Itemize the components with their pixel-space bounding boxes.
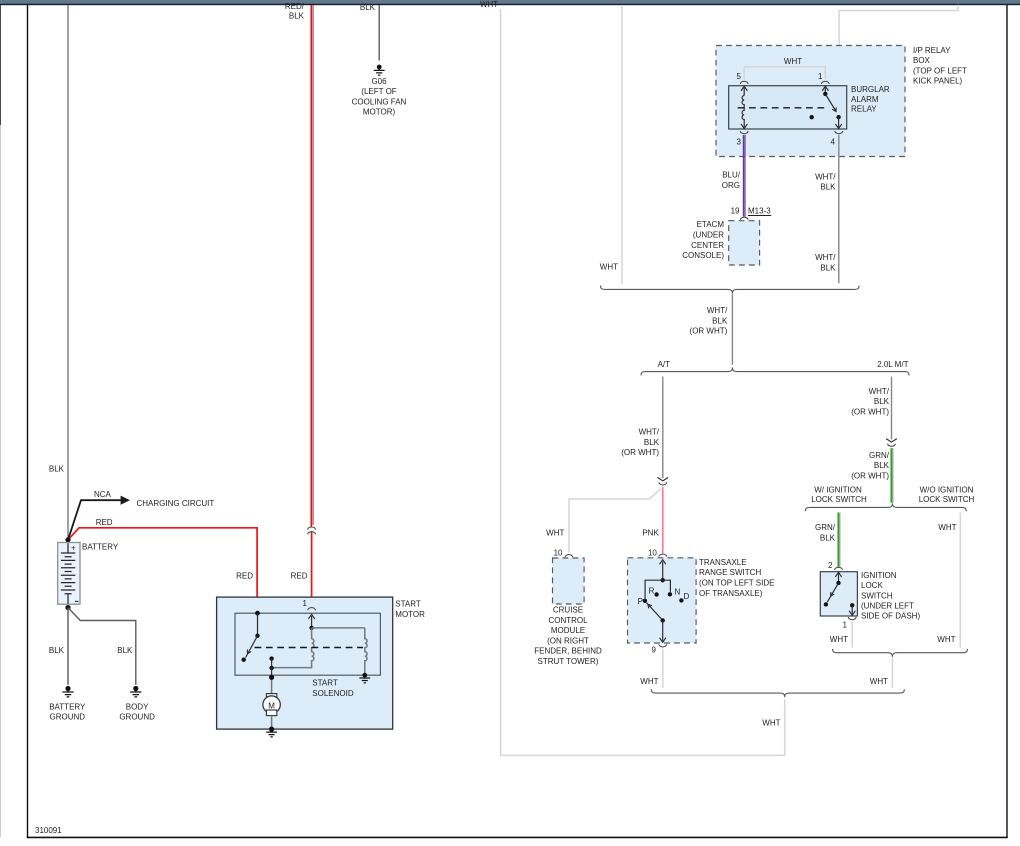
- svg-text:9: 9: [652, 645, 657, 654]
- svg-text:1: 1: [843, 621, 848, 630]
- svg-text:WHT: WHT: [830, 635, 848, 644]
- I/P relay box: [716, 46, 967, 157]
- svg-text:CONSOLE): CONSOLE): [682, 251, 724, 260]
- svg-text:WHT: WHT: [480, 0, 498, 9]
- svg-text:BLK: BLK: [874, 397, 890, 406]
- svg-text:10: 10: [648, 548, 657, 557]
- svg-text:OF TRANSAXLE): OF TRANSAXLE): [699, 589, 763, 598]
- svg-text:GRN/: GRN/: [815, 523, 836, 532]
- svg-text:A/T: A/T: [658, 360, 671, 369]
- relay dashed link: [738, 107, 828, 109]
- relay coil: [741, 86, 747, 128]
- svg-text:WHT: WHT: [762, 718, 780, 727]
- svg-text:GRN/: GRN/: [869, 451, 890, 460]
- svg-text:BLK: BLK: [874, 461, 890, 470]
- transaxle range switch box: [628, 558, 775, 643]
- svg-text:WHT/: WHT/: [815, 172, 836, 181]
- inline connector on RED/BLK wire: [308, 527, 316, 534]
- svg-text:LOCK: LOCK: [861, 581, 883, 590]
- svg-text:MODULE: MODULE: [551, 626, 585, 635]
- merge brace (WHT + WHT/BLK): [601, 286, 860, 294]
- ignition switch internals: [824, 572, 855, 615]
- inline connector A/T: [659, 482, 667, 485]
- svg-text:BATTERY: BATTERY: [82, 543, 119, 552]
- svg-text:W/ IGNITION: W/ IGNITION: [814, 486, 862, 495]
- wire BLK battery feed from top: [49, 5, 68, 540]
- svg-text:10: 10: [554, 548, 563, 557]
- svg-text:LOCK SWITCH: LOCK SWITCH: [919, 495, 975, 504]
- ignition lock switch box: [820, 571, 920, 621]
- svg-text:BURGLAR: BURGLAR: [851, 85, 890, 94]
- svg-text:WHT: WHT: [938, 523, 956, 532]
- pin 1: [818, 72, 829, 84]
- wire WHT branch to cruise module: [546, 489, 661, 558]
- solenoid dashed link: [255, 647, 364, 649]
- wire WHT transaxle pin 9 to merge brace: [640, 649, 663, 688]
- svg-text:W/O IGNITION: W/O IGNITION: [920, 486, 974, 495]
- diagram frame left border: [27, 5, 29, 838]
- battery ground symbol: [49, 686, 86, 722]
- svg-text:RED: RED: [291, 572, 308, 581]
- wire WHT ignition pin 1: [830, 622, 852, 648]
- cruise pin arc: [565, 555, 573, 558]
- svg-text:2.0L M/T: 2.0L M/T: [877, 360, 908, 369]
- wire BLK to body ground: [68, 608, 136, 685]
- svg-text:RED: RED: [236, 572, 253, 581]
- svg-text:CRUISE: CRUISE: [553, 606, 583, 615]
- svg-text:BLK: BLK: [49, 646, 65, 655]
- ignition pin 2: [828, 561, 842, 570]
- svg-text:START: START: [312, 679, 338, 688]
- wire BLK to battery ground: [49, 608, 68, 685]
- svg-text:BLK: BLK: [644, 438, 660, 447]
- svg-text:M: M: [268, 702, 275, 711]
- svg-text:START: START: [395, 600, 421, 609]
- pin 3: [737, 131, 749, 147]
- merge brace final: [651, 689, 904, 697]
- svg-text:WHT/: WHT/: [815, 253, 836, 262]
- svg-text:(OR WHT): (OR WHT): [851, 408, 889, 417]
- svg-text:1: 1: [303, 599, 308, 608]
- svg-text:R: R: [649, 586, 655, 595]
- merge brace ignition outputs: [833, 649, 968, 657]
- svg-text:GROUND: GROUND: [50, 713, 86, 722]
- svg-text:WHT: WHT: [784, 57, 802, 66]
- wire GRN/BLK to ignition split brace: [851, 448, 893, 503]
- svg-text:5: 5: [737, 72, 742, 81]
- svg-text:WHT/: WHT/: [707, 306, 728, 315]
- svg-text:GROUND: GROUND: [119, 713, 155, 722]
- split brace w/ vs w/o ignition lock switch: [805, 486, 974, 512]
- svg-text:WHT: WHT: [546, 529, 564, 538]
- svg-text:RED: RED: [96, 518, 113, 527]
- battery: [58, 543, 119, 605]
- pin 5: [737, 72, 749, 84]
- svg-text:3: 3: [737, 138, 742, 147]
- charging circuit arrow: [68, 490, 214, 540]
- ETACM box: [682, 220, 759, 265]
- svg-text:(OR WHT): (OR WHT): [690, 327, 728, 336]
- svg-text:TRANSAXLE: TRANSAXLE: [699, 558, 747, 567]
- svg-text:BLK: BLK: [820, 534, 836, 543]
- svg-text:M13-3: M13-3: [748, 207, 771, 216]
- svg-text:CHARGING CIRCUIT: CHARGING CIRCUIT: [137, 499, 215, 508]
- svg-text:ALARM: ALARM: [851, 95, 879, 104]
- svg-text:BLK: BLK: [49, 464, 65, 473]
- svg-text:1: 1: [818, 72, 823, 81]
- solenoid switch (left): [242, 611, 260, 662]
- wire WHT/BLK relay pin 4 down to merge brace: [815, 135, 839, 283]
- svg-text:RED/: RED/: [285, 2, 305, 11]
- wire GRN/BLK to ignition pin 2: [815, 513, 840, 567]
- svg-text:BOX: BOX: [913, 56, 931, 65]
- svg-text:(UNDER LEFT: (UNDER LEFT: [861, 602, 914, 611]
- wire BLK to G06 ground: [360, 3, 379, 60]
- svg-text:CONTROL: CONTROL: [548, 616, 588, 625]
- svg-text:2: 2: [828, 561, 833, 570]
- svg-text:NCA: NCA: [94, 490, 112, 499]
- wire WHT trunk (top to bottom loop): [480, 0, 785, 755]
- wire BLU/ORG relay pin 3 to ETACM: [722, 135, 745, 217]
- wire WHT brace output: [870, 658, 893, 688]
- svg-text:SOLENOID: SOLENOID: [312, 689, 354, 698]
- ETACM pin arc: [740, 217, 748, 220]
- solenoid output contact: [269, 656, 274, 693]
- svg-text:PNK: PNK: [642, 529, 659, 538]
- diagram frame right border: [1006, 5, 1008, 838]
- svg-text:BLK: BLK: [117, 646, 133, 655]
- svg-text:WHT/: WHT/: [869, 387, 890, 396]
- svg-text:FENDER, BEHIND: FENDER, BEHIND: [534, 647, 602, 656]
- svg-text:WHT: WHT: [600, 263, 618, 272]
- inline connector M/T: [888, 444, 896, 447]
- relay switch: [810, 86, 842, 128]
- svg-text:(ON TOP LEFT SIDE: (ON TOP LEFT SIDE: [699, 579, 774, 588]
- svg-text:G06: G06: [371, 77, 387, 86]
- svg-text:(TOP OF LEFT: (TOP OF LEFT: [913, 66, 967, 75]
- battery junction dot: [65, 537, 70, 542]
- battery negative junction: [65, 605, 70, 610]
- start solenoid inner box: [235, 613, 380, 675]
- svg-text:COOLING FAN: COOLING FAN: [352, 97, 407, 106]
- start motor pin 1: [303, 599, 316, 610]
- wire WHT from relay pin 1 to top right off-page: [827, 5, 959, 79]
- svg-text:RELAY: RELAY: [851, 105, 877, 114]
- diagram frame bottom border: [27, 836, 1008, 838]
- svg-text:I/P RELAY: I/P RELAY: [913, 46, 951, 55]
- wire WHT/BLK 2.0L M/T branch: [851, 377, 896, 443]
- svg-text:BLK: BLK: [360, 3, 376, 12]
- pin 4: [831, 131, 843, 147]
- svg-text:19: 19: [731, 207, 740, 216]
- svg-text:WHT: WHT: [870, 677, 888, 686]
- svg-text:(ON RIGHT: (ON RIGHT: [547, 636, 589, 645]
- cruise control module box: [534, 558, 602, 666]
- solenoid pull-in circuit: [272, 614, 370, 683]
- transaxle pin 9: [652, 644, 667, 654]
- svg-text:+: +: [71, 543, 76, 552]
- svg-text:RANGE SWITCH: RANGE SWITCH: [699, 568, 761, 577]
- svg-text:310091: 310091: [35, 826, 62, 835]
- svg-text:MOTOR: MOTOR: [395, 610, 425, 619]
- svg-text:BATTERY: BATTERY: [49, 702, 86, 711]
- top header bar: [0, 0, 1020, 4]
- burglar alarm relay inner box: [729, 85, 890, 129]
- svg-text:WHT: WHT: [937, 635, 955, 644]
- svg-text:BLK: BLK: [712, 316, 728, 325]
- svg-text:KICK PANEL): KICK PANEL): [913, 77, 963, 86]
- svg-text:D: D: [684, 592, 690, 601]
- start solenoid label: [312, 679, 354, 698]
- transaxle switch internals: [638, 560, 690, 643]
- svg-text:(OR WHT): (OR WHT): [621, 448, 659, 457]
- svg-text:LOCK SWITCH: LOCK SWITCH: [811, 495, 867, 504]
- svg-text:BLK: BLK: [289, 11, 305, 20]
- svg-text:WHT/: WHT/: [639, 428, 660, 437]
- split brace A/T vs 2.0L M/T: [641, 360, 909, 376]
- motor M: [263, 694, 280, 737]
- svg-text:BODY: BODY: [126, 702, 149, 711]
- body ground symbol: [119, 686, 155, 722]
- window left edge: [0, 5, 2, 125]
- wire RED/BLK from top to start motor pin 1: [285, 2, 313, 606]
- wire WHT/BLK brace to split brace: [690, 294, 733, 365]
- svg-text:SIDE OF DASH): SIDE OF DASH): [861, 612, 920, 621]
- wire PNK to transaxle pin 10: [642, 487, 662, 553]
- svg-text:(LEFT OF: (LEFT OF: [361, 87, 397, 96]
- svg-text:(UNDER: (UNDER: [693, 231, 724, 240]
- svg-text:MOTOR): MOTOR): [363, 108, 396, 117]
- start motor outer box: [217, 597, 426, 729]
- wire WHT/BLK A/T branch: [621, 377, 668, 481]
- svg-text:ETACM: ETACM: [697, 220, 725, 229]
- svg-text:CENTER: CENTER: [691, 241, 724, 250]
- svg-text:STRUT TOWER): STRUT TOWER): [538, 657, 599, 666]
- wire WHT w/o ignition branch: [937, 513, 960, 648]
- svg-text:4: 4: [831, 138, 836, 147]
- ground G06: [352, 65, 407, 117]
- svg-text:ORG: ORG: [722, 181, 740, 190]
- svg-text:P: P: [638, 597, 643, 606]
- svg-text:BLU/: BLU/: [722, 171, 741, 180]
- svg-text:SWITCH: SWITCH: [861, 591, 893, 600]
- svg-text:IGNITION: IGNITION: [861, 571, 897, 580]
- svg-text:WHT: WHT: [640, 677, 658, 686]
- wire WHT (left of relay, to merge brace): [600, 5, 622, 284]
- svg-text:BLK: BLK: [820, 183, 836, 192]
- wire WHT link relay pin 5 to pin 1: [744, 57, 825, 80]
- wire RED battery to start motor: [68, 518, 257, 613]
- connector M13-3 label: [748, 207, 771, 216]
- svg-text:BLK: BLK: [820, 264, 836, 273]
- ignition pin 1: [843, 617, 857, 630]
- svg-text:N: N: [675, 588, 681, 597]
- transaxle pin 10: [648, 548, 667, 557]
- svg-text:(OR WHT): (OR WHT): [851, 472, 889, 481]
